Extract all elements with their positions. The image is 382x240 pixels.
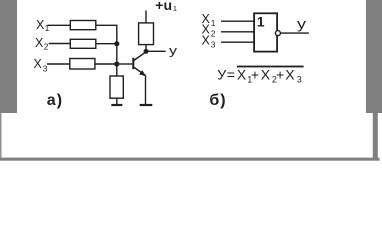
svg-text:1: 1 xyxy=(211,18,216,28)
wire gate input 1 xyxy=(221,20,254,22)
svg-text:1: 1 xyxy=(173,4,177,13)
wire bus to R4 xyxy=(116,64,118,76)
junction node bus/R2 xyxy=(114,41,119,46)
wire base xyxy=(117,63,133,65)
wire X3 to R3 xyxy=(47,63,70,65)
wire bus segment xyxy=(116,44,118,64)
wire R5 to collector node xyxy=(145,45,147,52)
svg-text:=: = xyxy=(227,66,235,82)
wire emitter vertical xyxy=(145,76,147,105)
svg-text:2: 2 xyxy=(211,29,216,39)
svg-text:2: 2 xyxy=(44,41,49,51)
svg-text:3: 3 xyxy=(43,64,48,74)
node collector dot xyxy=(144,49,149,54)
wire gate output xyxy=(280,32,309,34)
svg-text:+: + xyxy=(251,66,259,82)
svg-text:X: X xyxy=(261,66,271,82)
wire R3 to bus xyxy=(95,63,117,65)
junction node bus/R3/base xyxy=(114,61,119,66)
wire R4 to ground xyxy=(116,98,118,104)
svg-text:X: X xyxy=(202,34,211,48)
svg-text:X: X xyxy=(285,66,295,82)
svg-text:+u: +u xyxy=(155,0,172,13)
gate U1 box xyxy=(254,13,277,51)
page background xyxy=(0,0,382,162)
svg-text:1: 1 xyxy=(45,23,50,33)
svg-text:у: у xyxy=(169,44,177,58)
resistor R2 xyxy=(70,39,96,48)
wire gate input 2 xyxy=(221,31,254,33)
svg-text:3: 3 xyxy=(297,75,302,85)
svg-text:у: у xyxy=(297,16,306,32)
wire X2 to R2 xyxy=(49,43,71,45)
inversion circle xyxy=(275,31,280,36)
gray bottom bar xyxy=(0,158,380,161)
transistor VT1 emitter arrowhead xyxy=(139,70,146,76)
gray margin top-left xyxy=(0,0,17,113)
gray margin top-right xyxy=(366,0,382,113)
wire R1 to bus corner xyxy=(96,25,117,43)
svg-text:б): б) xyxy=(209,92,226,109)
wire +u to R5 xyxy=(145,11,147,23)
transistor VT1 emitter stroke with arrow xyxy=(134,67,146,75)
wire X1 to R1 xyxy=(48,24,71,26)
svg-text:X: X xyxy=(35,36,44,50)
formula overline xyxy=(237,66,304,68)
gray right border lower page xyxy=(373,113,378,160)
gray thin left border lower page xyxy=(0,113,2,158)
resistor R1 xyxy=(70,21,96,30)
wire output y xyxy=(146,50,166,52)
svg-text:У: У xyxy=(217,66,226,82)
svg-text:3: 3 xyxy=(211,40,216,50)
ground under emitter xyxy=(140,104,153,106)
svg-text:X: X xyxy=(34,57,43,71)
svg-text:а): а) xyxy=(47,92,63,109)
transistor VT1 base bar xyxy=(132,58,134,69)
wire R2 to bus xyxy=(96,43,117,45)
resistor R4 xyxy=(110,76,123,98)
svg-text:+: + xyxy=(276,66,284,82)
ground under R4 xyxy=(111,104,122,106)
resistor R3 xyxy=(70,59,95,70)
svg-text:1: 1 xyxy=(257,13,265,29)
svg-text:X: X xyxy=(237,66,247,82)
resistor R5 xyxy=(139,23,154,45)
transistor VT1 collector stroke xyxy=(134,52,146,61)
wire gate input 3 xyxy=(221,41,254,43)
